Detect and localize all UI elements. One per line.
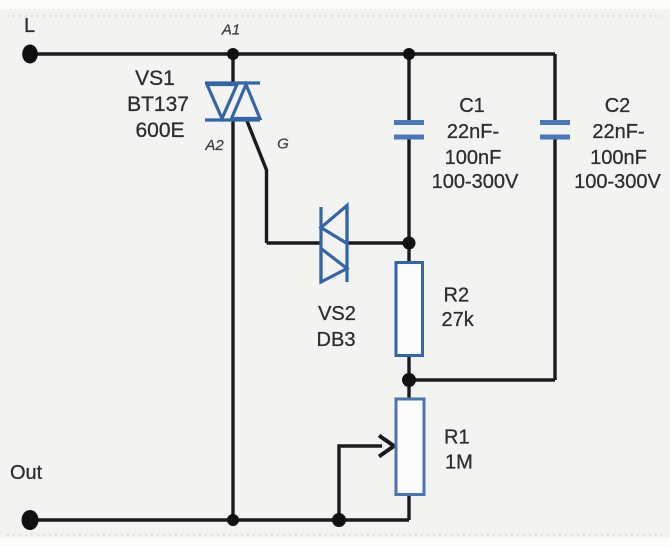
svg-text:G: G: [277, 136, 289, 153]
wire: top rail from L to C2 corner: [30, 52, 555, 55]
capacitor C2: [540, 123, 570, 138]
junction dot R2/R1 node: [402, 373, 416, 387]
wire: bottom rail: [30, 518, 409, 521]
wire: drop from top rail to C1: [407, 54, 410, 120]
wire: gate node to R2 top: [407, 243, 410, 263]
wire: triac A1 lead: [231, 54, 234, 84]
wire: R1 bottom to bottom rail: [407, 494, 410, 520]
svg-text:100-300V: 100-300V: [574, 171, 661, 193]
page border dotted top: [7, 15, 662, 17]
svg-text:DB3: DB3: [317, 329, 356, 351]
capacitor C1: [394, 123, 424, 138]
svg-text:R2: R2: [444, 285, 470, 307]
wire: C1 bottom lead down to gate node: [407, 139, 410, 243]
svg-text:L: L: [24, 15, 35, 37]
node A1 junction dot: [227, 48, 239, 60]
junction dot wiper on bottom rail: [332, 513, 346, 527]
svg-text:1M: 1M: [445, 452, 473, 474]
terminal L: [22, 45, 38, 64]
wiper arrowhead: [379, 436, 394, 457]
junction dot gate node: [403, 237, 416, 250]
svg-text:100nF: 100nF: [590, 147, 647, 169]
wire: gate horizontal to diac: [267, 241, 322, 244]
potentiometer R1: [396, 399, 424, 495]
wire: R2 bottom to node: [407, 355, 410, 380]
wire: right drop to C2 top plate: [553, 54, 556, 120]
wire: horizontal from C2 leg to R2/R1 node: [409, 378, 555, 381]
svg-text:C2: C2: [605, 95, 631, 117]
svg-text:Out: Out: [10, 462, 43, 484]
page border dotted bottom: [7, 534, 662, 536]
wire: gate diagonal from triac: [247, 121, 267, 243]
junction dot triac on bottom rail: [227, 514, 239, 526]
wire: diac to C1/R2 node: [347, 241, 409, 244]
wire: R1 wiper branch: [339, 446, 382, 520]
diac VS2: [321, 205, 347, 283]
svg-text:100-300V: 100-300V: [432, 171, 519, 193]
svg-text:C1: C1: [459, 95, 485, 117]
triac VS1: [205, 83, 260, 120]
svg-text:A2: A2: [204, 137, 224, 154]
wire: node to R1 top: [407, 380, 410, 399]
wire: C2 bottom lead down: [553, 139, 556, 380]
wire: triac A2 lead down to bottom rail: [231, 119, 234, 520]
svg-text:BT137: BT137: [127, 93, 189, 116]
svg-text:600E: 600E: [135, 119, 184, 142]
svg-text:100nF: 100nF: [445, 147, 502, 169]
svg-text:R1: R1: [444, 427, 470, 449]
svg-text:27k: 27k: [442, 309, 475, 331]
svg-text:A1: A1: [221, 22, 240, 39]
svg-text:22nF-: 22nF-: [447, 121, 499, 143]
junction dot top of C1: [403, 48, 415, 60]
svg-text:VS2: VS2: [318, 303, 356, 325]
resistor R2: [396, 263, 423, 356]
svg-text:VS1: VS1: [135, 67, 175, 90]
svg-text:22nF-: 22nF-: [592, 121, 644, 143]
terminal Out: [22, 510, 39, 530]
